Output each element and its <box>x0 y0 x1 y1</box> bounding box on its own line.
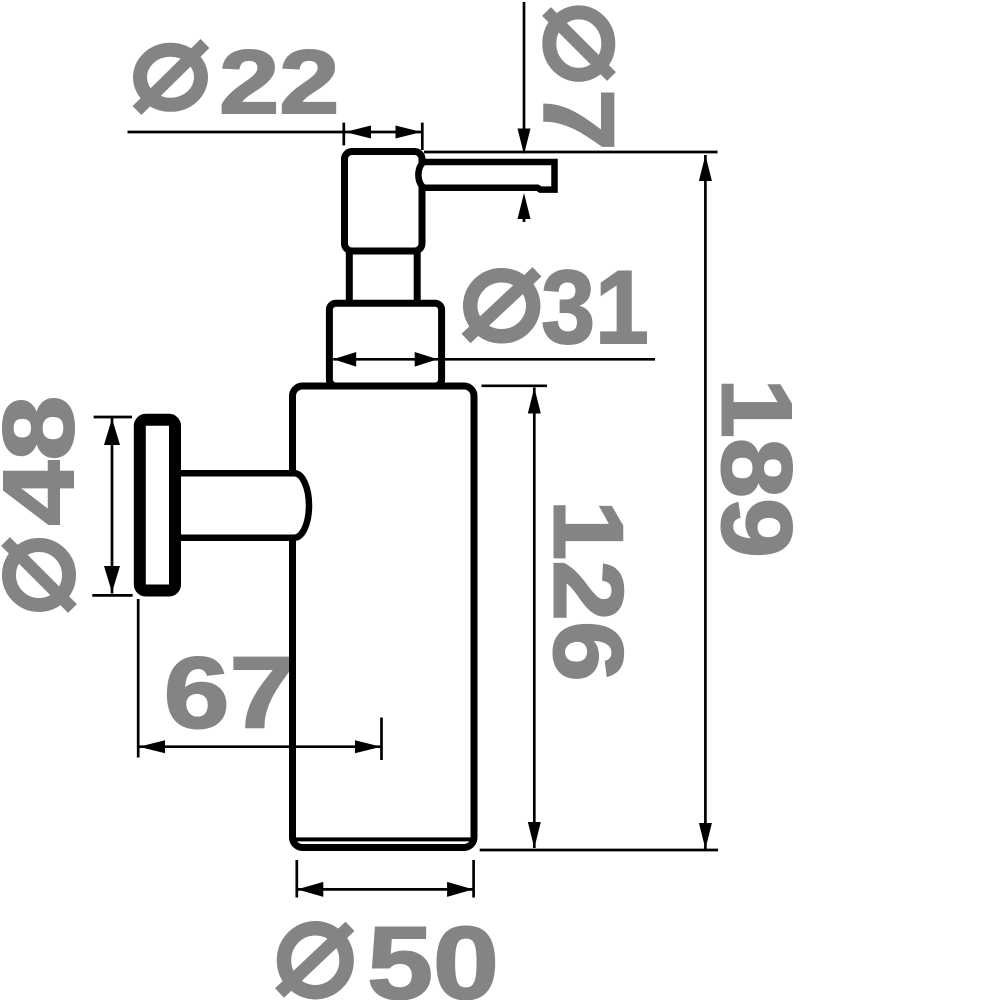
arrow 126 down <box>528 822 541 848</box>
arrow 67 right <box>355 740 381 753</box>
arrow Ø31 left <box>333 352 356 367</box>
svg-text:7: 7 <box>523 89 635 151</box>
neck left line <box>346 249 353 306</box>
dim Ø31 line <box>333 358 655 361</box>
label 67 <box>164 637 295 750</box>
dim 67 line <box>138 745 381 748</box>
dim 67 right tick <box>380 718 383 761</box>
extension line top (spout top to 189) <box>424 151 718 154</box>
dim Ø48 line <box>111 418 114 594</box>
wall plate <box>140 420 175 591</box>
label Ø48 diameter symbol (rotated) <box>6 542 73 609</box>
dim Ø22 left tick <box>342 123 345 146</box>
dim Ø22 right tick <box>421 123 424 150</box>
svg-text:189: 189 <box>701 378 812 558</box>
svg-text:48: 48 <box>0 396 95 526</box>
dim Ø50 line <box>297 888 474 891</box>
label Ø22 digits <box>219 32 339 132</box>
wall arm (stroke) <box>178 473 309 537</box>
dim Ø7 upper line <box>523 2 526 130</box>
arrow Ø48 up <box>104 419 120 446</box>
arrow Ø7 up <box>518 193 531 219</box>
dim 126 line <box>533 388 536 849</box>
arrow Ø48 down <box>104 566 120 593</box>
pump head <box>345 152 423 252</box>
extension line bottom (base to 189) <box>480 849 718 852</box>
arrow Ø50 right <box>447 882 473 897</box>
spout <box>418 162 554 190</box>
arrow Ø22 right <box>396 126 422 139</box>
svg-text:67: 67 <box>164 637 295 750</box>
arrow 126 up <box>528 388 541 414</box>
dim Ø7 lower stub <box>523 217 526 222</box>
label Ø50 diameter symbol <box>280 926 351 993</box>
arrow 67 left <box>139 740 165 753</box>
svg-text:126: 126 <box>534 499 644 681</box>
svg-text:31: 31 <box>541 250 649 366</box>
label Ø31 digits <box>541 250 649 366</box>
neck right line <box>414 249 421 306</box>
arrow Ø31 right <box>415 352 438 367</box>
svg-text:22: 22 <box>219 32 339 132</box>
label Ø22 diameter symbol <box>137 44 205 111</box>
label Ø50 digits <box>367 906 499 1000</box>
label 126 (rotated) <box>534 499 644 681</box>
base seam line <box>296 837 471 841</box>
arrow Ø22 left <box>345 126 371 139</box>
dim Ø50 left tick <box>295 860 298 898</box>
dim 67 left extension <box>137 599 140 758</box>
arrow Ø50 left <box>297 882 323 897</box>
dim Ø48 top tick <box>94 416 132 419</box>
label Ø31 diameter symbol <box>466 272 537 339</box>
label Ø7 diameter symbol (rotated) <box>547 12 612 77</box>
label Ø7 digit (rotated) <box>523 89 635 151</box>
svg-text:50: 50 <box>367 906 499 1000</box>
label Ø48 digits (rotated) <box>0 396 95 526</box>
dim Ø22 line <box>128 131 423 134</box>
dim Ø48 bottom tick <box>92 594 132 597</box>
arrow 189 up <box>699 155 712 181</box>
bottle body <box>293 386 475 848</box>
arrow Ø7 down <box>518 129 531 155</box>
dim 189 line <box>704 155 707 849</box>
collar <box>329 303 441 386</box>
dim Ø50 right tick <box>472 860 475 898</box>
extension line 126 top <box>482 384 548 387</box>
label 189 (rotated) <box>701 378 812 558</box>
arrow 189 down <box>699 823 712 849</box>
wall arm (fill) <box>178 473 309 537</box>
